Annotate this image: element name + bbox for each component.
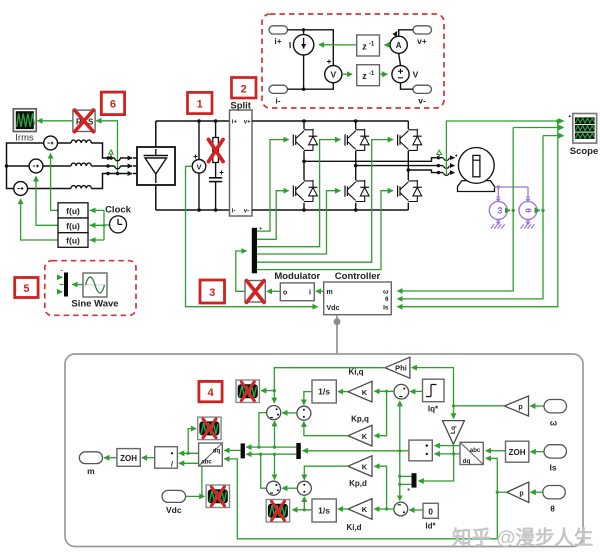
label Irms bbox=[15, 133, 34, 144]
wire sine wave to bar bbox=[73, 284, 84, 286]
gate wire g1 bbox=[257, 140, 289, 232]
svg-text:Is: Is bbox=[549, 463, 556, 473]
svg-text:Clock: Clock bbox=[105, 205, 132, 216]
inductor Lc bbox=[28, 186, 92, 189]
demux bar of sine group bbox=[59, 271, 68, 297]
wire Ki,d to integrator d bbox=[338, 508, 348, 510]
wire z-1 upper to I bbox=[319, 44, 357, 46]
leg A vertical bbox=[302, 121, 306, 210]
AC current source 2 bbox=[29, 159, 43, 173]
wire theta pill to p bbox=[531, 491, 543, 493]
current tap arrow phase a bbox=[437, 150, 442, 157]
svg-text:z: z bbox=[362, 71, 367, 81]
block constant 0 bbox=[423, 503, 438, 530]
svg-text:v-: v- bbox=[418, 96, 426, 106]
port Is bbox=[544, 445, 567, 473]
rectifier bridge bbox=[137, 147, 175, 185]
block f(u) 1 bbox=[58, 203, 88, 218]
wire DC+ rail left bbox=[156, 119, 230, 123]
voltage sensor V bbox=[325, 60, 342, 83]
svg-text:Modulator: Modulator bbox=[274, 271, 320, 282]
block divide bbox=[155, 447, 178, 469]
svg-text:θ: θ bbox=[550, 504, 555, 514]
phase line c bbox=[408, 170, 454, 175]
mux bar1 bbox=[241, 443, 245, 458]
svg-text:Ki,d: Ki,d bbox=[346, 523, 361, 532]
block Split bbox=[230, 101, 253, 217]
port v+ bbox=[413, 26, 432, 46]
left bus wire bbox=[5, 143, 44, 189]
block z-1 lower bbox=[357, 65, 380, 86]
svg-text:f(u): f(u) bbox=[66, 206, 80, 216]
sum q1 bbox=[267, 406, 281, 420]
svg-text:ω: ω bbox=[383, 289, 389, 296]
wire z-1 lower to V source bbox=[380, 73, 388, 75]
brake block (deleted, red X) bbox=[209, 138, 224, 163]
filter block C (deleted, red X) bbox=[206, 485, 229, 508]
wire 0 to error sum d bbox=[409, 509, 423, 511]
filter block B (deleted, red X) bbox=[198, 417, 221, 440]
wire DC- rail left bbox=[156, 208, 230, 212]
label Scope bbox=[570, 146, 599, 157]
wire phase b into rectifier bbox=[91, 164, 137, 169]
svg-text:f(u): f(u) bbox=[66, 236, 80, 246]
sum q2 bbox=[297, 406, 311, 420]
wire p theta out bbox=[497, 491, 506, 493]
wire i- rail bbox=[288, 55, 334, 91]
gain Ki,q bbox=[348, 368, 372, 403]
wire tap to filter A bbox=[261, 390, 274, 392]
mux bar3 stubs bbox=[400, 476, 412, 484]
inductor Lb bbox=[43, 163, 91, 166]
gain Phi bbox=[385, 357, 410, 378]
wire Phi to sum q1 top bbox=[273, 368, 386, 403]
wire Vdc tap to divide in2 bbox=[179, 463, 203, 498]
wire divide to ZOH bbox=[142, 457, 155, 459]
wire rectifier DC- bbox=[155, 185, 157, 210]
wire tap to filter D bbox=[293, 509, 305, 511]
svg-text:ω: ω bbox=[550, 418, 557, 428]
filter block D (deleted, red X) bbox=[266, 500, 289, 523]
block Controller bbox=[324, 271, 392, 315]
wire angle route to dqabc in2 bbox=[224, 459, 497, 539]
svg-text:Ki,q: Ki,q bbox=[348, 368, 363, 377]
block Clock bbox=[105, 205, 132, 233]
svg-text:v-: v- bbox=[244, 209, 249, 215]
dashed box 5 bbox=[45, 261, 136, 316]
AC current source 1 bbox=[44, 136, 58, 150]
svg-text:Controller: Controller bbox=[335, 271, 381, 282]
current source I bbox=[289, 35, 314, 55]
svg-text:1: 1 bbox=[197, 99, 203, 111]
wire Vq line into bar1 bbox=[246, 446, 296, 449]
block ZOH left bbox=[117, 449, 140, 467]
svg-text:Lq: Lq bbox=[450, 426, 457, 434]
badge 5 bbox=[15, 278, 38, 298]
wire integrator d to sum d2 bottom bbox=[303, 497, 312, 512]
wire Is pill to ZOH bbox=[531, 451, 544, 453]
demux gate bar bbox=[252, 228, 262, 274]
svg-text:V: V bbox=[413, 70, 419, 80]
wire theta sensor to scope and controller bbox=[398, 136, 564, 299]
port v- bbox=[413, 85, 432, 105]
wire clock to f(u) blocks bbox=[90, 210, 110, 240]
svg-text:I: I bbox=[289, 40, 291, 50]
wire modulator to PWM block bbox=[267, 290, 280, 292]
wire Lq apex to product line bbox=[452, 444, 455, 455]
svg-text:A: A bbox=[396, 41, 402, 50]
svg-text:dq: dq bbox=[213, 448, 221, 455]
port i- bbox=[269, 85, 288, 105]
svg-text:1/s: 1/s bbox=[318, 387, 330, 397]
block f(u) 3 bbox=[58, 233, 88, 248]
badge 1 bbox=[188, 92, 213, 113]
svg-text:θ: θ bbox=[524, 208, 534, 213]
wire i+ rail bbox=[288, 28, 334, 65]
wire f(u)3 to source 3 bbox=[21, 199, 58, 240]
phase line b bbox=[356, 164, 455, 169]
svg-text:Iq*: Iq* bbox=[428, 405, 439, 414]
wire phase a into rectifier bbox=[91, 143, 137, 161]
wire bar1 to dqabc in1 bbox=[224, 449, 240, 451]
badge 3 bbox=[200, 280, 225, 303]
AC current source 3 bbox=[14, 182, 28, 196]
wire rectifier DC+ bbox=[155, 121, 157, 147]
svg-text:Phi: Phi bbox=[395, 364, 407, 373]
integrator 1/s d bbox=[312, 499, 336, 522]
svg-text:ZOH: ZOH bbox=[509, 448, 526, 457]
wire apex line down to bar3 bbox=[419, 454, 454, 481]
gate wire g2 bbox=[257, 191, 289, 240]
wire V sensor to z-1 lower bbox=[342, 73, 352, 75]
mechanical wire to sensors (purple) bbox=[495, 185, 531, 201]
svg-text:V: V bbox=[196, 163, 201, 172]
port i+ bbox=[269, 26, 288, 46]
wire A to z-1 upper bbox=[385, 44, 391, 46]
gate wire g3 bbox=[257, 140, 340, 247]
wire integrator q to sum q2 bbox=[304, 392, 312, 405]
port m bbox=[79, 452, 102, 476]
svg-text:2: 2 bbox=[241, 84, 247, 96]
IGBT Q3 bbox=[345, 129, 369, 151]
wire sum-d1 out up bbox=[261, 454, 267, 488]
leg C vertical bbox=[407, 121, 411, 210]
wire ZOH Is to abcdq in1 bbox=[486, 450, 506, 452]
wire Is branch to controller bbox=[398, 121, 558, 307]
svg-text:v+: v+ bbox=[244, 120, 251, 126]
wire Vdc to filter C bbox=[186, 495, 205, 497]
IGBT Q5 bbox=[398, 129, 422, 151]
svg-text:3: 3 bbox=[209, 287, 215, 299]
wire up into sum-q1 bottom bbox=[274, 421, 276, 447]
wire phase c into rectifier bbox=[91, 172, 137, 189]
IGBT Q4 bbox=[345, 180, 369, 202]
svg-text:0: 0 bbox=[428, 507, 433, 517]
voltage source V bbox=[392, 66, 419, 83]
svg-text:i: i bbox=[309, 289, 311, 296]
wire current measurement to scope input 1 bbox=[446, 119, 563, 175]
gate wire g4 bbox=[257, 191, 340, 254]
port theta bbox=[543, 486, 566, 514]
integrator 1/s q bbox=[312, 380, 336, 403]
svg-text:i+: i+ bbox=[274, 36, 281, 46]
svg-text:-1: -1 bbox=[369, 42, 375, 48]
wire sum q2 to sum q1 bbox=[282, 412, 297, 414]
svg-text:K: K bbox=[362, 462, 368, 471]
wire Ki,q to integrator q bbox=[338, 391, 348, 393]
svg-text:Is: Is bbox=[383, 304, 389, 311]
wire RMS to Irms scope bbox=[38, 120, 73, 122]
svg-text:K: K bbox=[362, 432, 368, 441]
error sum q bbox=[394, 384, 409, 399]
svg-text:-1: -1 bbox=[369, 71, 375, 77]
gain p theta bbox=[507, 482, 529, 503]
wire ZOH to m bbox=[104, 457, 117, 459]
wire Kp,d to sum d2 top bbox=[304, 466, 348, 480]
wire Kp,q to sum q2 bottom bbox=[304, 422, 348, 436]
svg-text:Vdc: Vdc bbox=[327, 305, 340, 312]
svg-text:1/s: 1/s bbox=[318, 506, 330, 516]
svg-text:abc: abc bbox=[201, 459, 212, 466]
block Sine Wave bbox=[71, 273, 118, 310]
badge 2 bbox=[232, 78, 257, 99]
scope block bbox=[569, 114, 597, 144]
ground theta sensor bbox=[521, 219, 535, 228]
svg-text:f(u): f(u) bbox=[66, 221, 80, 231]
gain Kp,d bbox=[348, 456, 372, 488]
wire v+ to ammeter bbox=[399, 30, 413, 36]
product block bbox=[409, 440, 432, 461]
ammeter A bbox=[390, 32, 407, 54]
svg-text:abc: abc bbox=[470, 447, 481, 454]
svg-text:m: m bbox=[87, 466, 95, 476]
ground w sensor bbox=[491, 219, 505, 228]
svg-text:V: V bbox=[330, 70, 336, 80]
svg-text:知乎 @漫步人生: 知乎 @漫步人生 bbox=[452, 526, 593, 549]
watermark 知乎 bbox=[452, 526, 593, 549]
wire sum d2 to sum d1 bbox=[282, 487, 297, 489]
leg B vertical bbox=[354, 121, 358, 210]
PWM block (deleted, red X) bbox=[245, 281, 265, 303]
sum d2 bbox=[297, 481, 311, 495]
badge 4 bbox=[199, 381, 222, 401]
wire error q to Kp,q bbox=[375, 391, 387, 435]
IGBT Q6 bbox=[398, 180, 422, 202]
angle sensor theta bbox=[519, 201, 537, 219]
wire DC+ rail right bbox=[252, 119, 408, 123]
svg-text:i-: i- bbox=[275, 96, 280, 106]
svg-text:θ: θ bbox=[385, 296, 389, 303]
wire abcdq out2 to product bbox=[435, 453, 460, 455]
filter block A (deleted, red X) bbox=[236, 380, 259, 403]
svg-text:Split: Split bbox=[230, 101, 251, 112]
IGBT Q1 bbox=[293, 129, 317, 151]
wire phase tap to RMS input bbox=[96, 121, 119, 175]
gate wire g6 bbox=[257, 191, 393, 270]
block f(u) 2 bbox=[58, 218, 88, 233]
capacitor C bbox=[209, 121, 224, 210]
port Vdc bbox=[162, 490, 186, 515]
wire ammeter to V source bbox=[399, 54, 401, 66]
svg-text:dq: dq bbox=[463, 458, 471, 465]
svg-text:ZOH: ZOH bbox=[120, 454, 137, 463]
block dq to abc bbox=[199, 443, 223, 466]
gain p omega bbox=[504, 396, 528, 416]
svg-text:i+: i+ bbox=[232, 120, 238, 126]
wire V source to v- bbox=[401, 83, 414, 89]
wire f(u)2 to source 2 bbox=[36, 177, 58, 226]
svg-text:Kp,d: Kp,d bbox=[349, 479, 367, 488]
port omega bbox=[544, 400, 567, 428]
badge 6 bbox=[101, 92, 124, 115]
svg-text:Id*: Id* bbox=[425, 522, 436, 531]
gain Lq (rotated) bbox=[443, 421, 465, 445]
svg-text:p: p bbox=[519, 490, 523, 497]
sum d1 bbox=[267, 481, 281, 495]
wire abcdq out1 to product bbox=[435, 445, 460, 447]
wire error q to gains bbox=[375, 390, 395, 393]
dashed box 2 (split subsystem) bbox=[262, 14, 444, 108]
wire sum-q1 out down bbox=[259, 413, 267, 448]
wire Vd line into bar1 bbox=[246, 453, 296, 456]
wire dqabc out to divide in1 bbox=[179, 452, 199, 455]
wire Vdc measurement to controller bbox=[186, 166, 318, 306]
wire Id down to error sum d bbox=[398, 451, 401, 501]
block abc to dq bbox=[460, 442, 483, 465]
block RMS (deleted, red X) bbox=[73, 110, 95, 132]
gain Ki,d bbox=[346, 499, 372, 532]
block Modulator bbox=[274, 271, 320, 301]
svg-text:6: 6 bbox=[110, 99, 116, 111]
svg-text:Kp,q: Kp,q bbox=[351, 415, 369, 424]
scope Irms bbox=[13, 109, 36, 132]
gain Kp,q bbox=[348, 415, 372, 447]
demux bar2 bbox=[296, 443, 301, 459]
svg-text:Irms: Irms bbox=[15, 133, 34, 144]
svg-text:K: K bbox=[362, 388, 368, 397]
block z-1 upper bbox=[357, 35, 380, 56]
wire DC- rail right bbox=[252, 208, 408, 212]
svg-text:o: o bbox=[283, 289, 287, 296]
svg-text:i-: i- bbox=[232, 209, 236, 215]
wire f(u)1 to source 1 bbox=[51, 154, 58, 211]
wire theta to abcdq in2 bbox=[486, 458, 499, 493]
subsystem box bbox=[65, 354, 583, 547]
svg-text:p: p bbox=[518, 404, 522, 411]
wire down into sum-d1 top bbox=[274, 454, 276, 479]
svg-text:K: K bbox=[362, 505, 368, 514]
voltage sensor Vdc bbox=[192, 121, 206, 210]
wire PWM to demux bar bbox=[236, 251, 247, 291]
wire product out to bar2 bbox=[303, 449, 409, 452]
svg-text:Sine Wave: Sine Wave bbox=[71, 299, 118, 310]
IGBT Q2 bbox=[293, 180, 317, 202]
svg-text:v+: v+ bbox=[417, 36, 427, 46]
svg-text:Vdc: Vdc bbox=[166, 505, 182, 515]
wire omega junction into Lq bbox=[453, 406, 455, 419]
motor PMSM bbox=[455, 148, 494, 192]
svg-text:Scope: Scope bbox=[570, 146, 599, 157]
svg-text:m: m bbox=[327, 289, 333, 296]
phase line a bbox=[304, 156, 455, 161]
wire error d to Kp,d bbox=[375, 466, 387, 509]
saturation Iq* bbox=[423, 379, 445, 413]
callout line to subsystem box bbox=[334, 315, 341, 354]
wire error d to gains bbox=[375, 507, 394, 510]
svg-text:4: 4 bbox=[207, 387, 214, 399]
wire saturation to error sum q bbox=[410, 390, 422, 392]
block ZOH Is bbox=[506, 441, 529, 462]
svg-text:ω: ω bbox=[494, 207, 504, 214]
gate wire g5 bbox=[257, 140, 393, 263]
wire p omega to Phi bbox=[412, 368, 505, 408]
svg-text:z: z bbox=[362, 42, 367, 52]
inductor La bbox=[58, 140, 92, 143]
wire Iq up to error sum q bbox=[399, 401, 401, 451]
mux bar3 bbox=[408, 473, 417, 490]
wire w sensor to scope and controller bbox=[398, 128, 564, 292]
speed sensor w bbox=[489, 201, 507, 219]
svg-text:5: 5 bbox=[23, 283, 29, 295]
wire omega pill to p bbox=[530, 405, 544, 407]
error sum d bbox=[394, 502, 408, 516]
wire controller m to modulator bbox=[316, 290, 324, 292]
wire tap to filter B bbox=[188, 429, 196, 454]
